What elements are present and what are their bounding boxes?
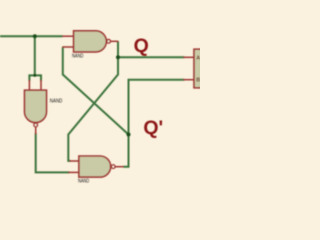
pin: top gate input 1 xyxy=(62,35,73,37)
svg-text:NAND: NAND xyxy=(72,54,84,60)
node: junction Q' xyxy=(127,133,131,137)
op: NAND gate U2 body (vertical) xyxy=(25,90,47,122)
bubble: U3 output xyxy=(111,165,115,169)
svg-text:B: B xyxy=(196,78,200,84)
ic: box U4 (partially off-canvas) xyxy=(194,49,207,88)
wire: Q net horizontal to box pin A xyxy=(118,56,185,58)
pin: left gate output xyxy=(35,127,37,135)
node: junction on input wire xyxy=(33,34,37,38)
pin: top gate input 2 xyxy=(62,46,73,48)
bubble: U1 output xyxy=(107,40,111,44)
svg-text:Q: Q xyxy=(134,35,149,57)
svg-text:NAND: NAND xyxy=(78,179,89,185)
wire: main input horizontal S xyxy=(0,35,63,37)
op: NAND gate U1 body xyxy=(74,31,107,52)
pin: top gate output xyxy=(110,40,118,42)
pin: box pin B xyxy=(183,79,194,81)
op: NAND gate U3 body xyxy=(79,156,111,177)
svg-text:A: A xyxy=(196,55,200,61)
pin: bottom gate input 1 xyxy=(70,160,80,162)
wire: left gate output to bottom gate lower input xyxy=(36,133,70,172)
pin: left gate input 2 xyxy=(40,80,42,90)
wire: bottom gate output up to box pin B xyxy=(123,80,184,167)
wire: top gate output down, to A, diagonal to bottom-left xyxy=(68,41,118,161)
svg-text:NAND: NAND xyxy=(50,99,63,105)
node: junction Q xyxy=(116,55,120,59)
pin: bottom gate output xyxy=(115,166,124,168)
wire: bridge over left gate inputs xyxy=(29,75,41,81)
bubble: U2 output xyxy=(34,123,38,127)
wire: vertical branch to left gate xyxy=(34,36,36,75)
wire: top gate lower input down-diagonal to bottom junction xyxy=(63,47,129,135)
pin: bottom gate input 2 xyxy=(68,171,79,173)
pin: left gate input 1 xyxy=(28,80,30,90)
node: junction on bridge xyxy=(33,74,36,77)
svg-text:Q': Q' xyxy=(143,117,163,139)
pin: box pin A xyxy=(183,56,194,58)
